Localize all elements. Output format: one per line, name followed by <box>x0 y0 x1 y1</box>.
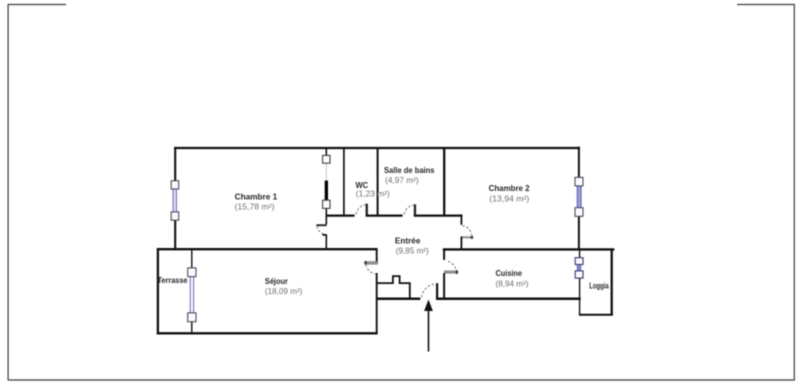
door D3 arc <box>404 205 413 214</box>
door D5 arc <box>366 265 375 274</box>
sejour right wall upper <box>376 248 378 261</box>
wire chambre2 jog wall lower <box>460 237 462 251</box>
svg-text:(13,94 m²): (13,94 m²) <box>489 195 529 204</box>
wire chambre1 left wall <box>174 147 176 182</box>
svg-text:(8,94 m²): (8,94 m²) <box>496 280 529 289</box>
wire sdb/chambre2 wall <box>443 147 445 216</box>
door D6 leaf tip <box>456 270 458 274</box>
wire corridor wall segment c <box>414 214 463 216</box>
wire chambre2 right wall <box>578 147 580 179</box>
svg-text:Cuisine: Cuisine <box>496 269 523 278</box>
svg-text:Salle de bains: Salle de bains <box>384 166 435 175</box>
window W2 chambre2 right <box>575 177 583 216</box>
window W4 terrasse <box>188 268 196 322</box>
sejour block left wall <box>157 248 159 334</box>
svg-text:Chambre 2: Chambre 2 <box>489 184 530 193</box>
wire corridor wall segment a <box>326 214 355 216</box>
sejour right wall lower <box>376 273 378 334</box>
svg-text:Loggia: Loggia <box>589 282 609 291</box>
wire loggia left thin wall <box>579 250 581 258</box>
svg-text:(18,09 m²): (18,09 m²) <box>265 287 303 296</box>
door D7 arc <box>422 284 435 297</box>
entry bottom wall right / cuisine bottom wall <box>436 297 581 300</box>
wire chambre1 right wall lower <box>325 235 327 251</box>
svg-text:(1,23 m²): (1,23 m²) <box>356 189 390 198</box>
wire wc/sdb wall <box>377 147 379 216</box>
cuisine left wall upper <box>443 249 445 260</box>
wire chambre1 right wall upper <box>325 147 327 156</box>
window W3 loggia <box>575 258 583 278</box>
svg-text:Terrasse: Terrasse <box>158 276 188 285</box>
door D1 stub <box>322 234 326 236</box>
wire wc left wall <box>343 147 345 216</box>
door D1 arc <box>317 226 325 234</box>
shaft symbol chambre1/wc <box>323 155 330 208</box>
wire top exterior wall <box>174 147 580 149</box>
cuisine top wall <box>443 248 615 250</box>
svg-text:Entrée: Entrée <box>395 236 421 245</box>
wire corridor wall segment b <box>366 214 403 216</box>
door D3 sdb leaf <box>414 204 416 215</box>
svg-text:Séjour: Séjour <box>265 277 289 286</box>
door D6 cuisine arc <box>448 261 456 270</box>
door D7 entrance leaf <box>436 283 438 298</box>
svg-text:(9,85 m²): (9,85 m²) <box>396 246 429 255</box>
door D2 arc <box>356 205 365 215</box>
svg-text:(15,78 m²): (15,78 m²) <box>235 202 275 211</box>
door D2 wc leaf <box>366 204 368 216</box>
door D6 cuisine leaf <box>444 271 457 273</box>
terrasse wall <box>191 248 193 268</box>
door D5 sejour leaf <box>365 262 378 265</box>
loggia bottom wall <box>579 314 613 316</box>
window W1 chambre1 left <box>171 181 179 220</box>
svg-text:(4,97 m²): (4,97 m²) <box>385 176 419 185</box>
sejour block top wall <box>157 248 378 250</box>
loggia right wall <box>611 249 613 316</box>
door D4 leaf <box>461 236 471 238</box>
entrance arrow shaft <box>428 310 430 352</box>
entrance arrow head <box>424 300 433 312</box>
closet walls entree <box>378 276 410 298</box>
entry bottom wall left <box>377 297 420 300</box>
sejour block bottom wall <box>157 332 378 334</box>
door D4 chambre2 arc <box>462 226 471 235</box>
svg-text:Chambre 1: Chambre 1 <box>235 193 278 202</box>
cuisine left wall lower <box>443 273 445 299</box>
door D1 chambre1 leaf <box>316 224 326 226</box>
wire chambre2 jog wall upper <box>460 214 462 224</box>
